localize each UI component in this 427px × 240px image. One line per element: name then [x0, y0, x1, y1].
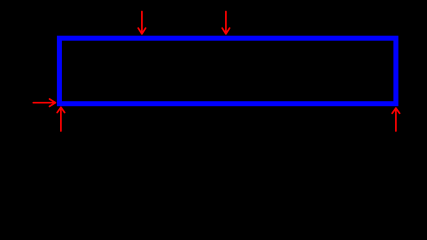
- load arrow P2 (down, mid span): [222, 12, 229, 34]
- reaction arrow By (up, bottom-right corner): [392, 108, 399, 131]
- reaction arrow Ay (up, bottom-left corner): [57, 107, 64, 131]
- beam outline (blue rectangle): [59, 38, 396, 104]
- reaction arrow Ax (right, at left support): [33, 99, 55, 106]
- load arrow P1 (down, quarter span): [138, 12, 145, 34]
